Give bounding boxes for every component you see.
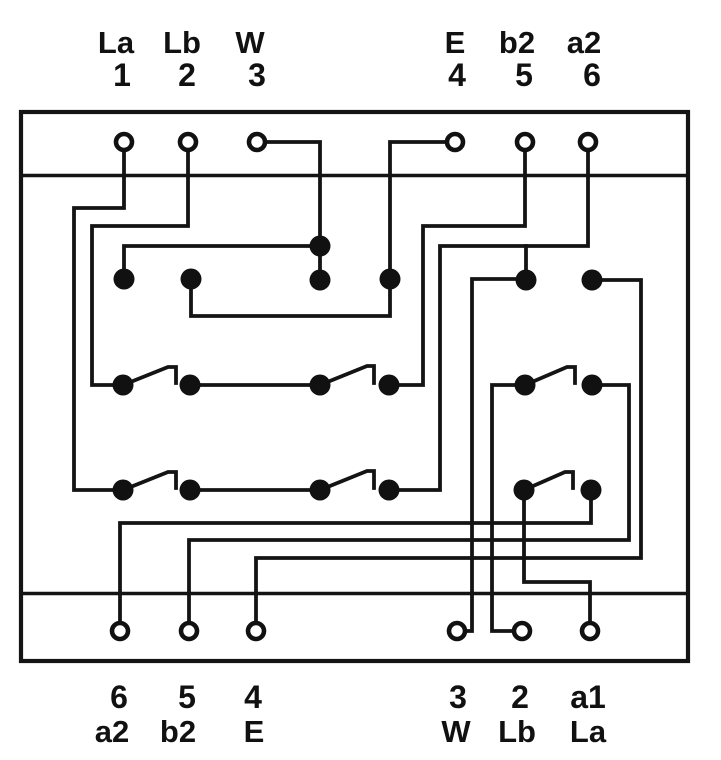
switch S2b contacts [310, 480, 331, 501]
wire switch row1 middle [190, 383, 320, 387]
connector housing outline [21, 112, 688, 661]
switch S1a arm [123, 367, 176, 385]
svg-text:W: W [441, 714, 471, 749]
wire switch row2 middle [190, 488, 320, 492]
wire E4: terminal 4 left, down through node, U-turn up to second node dot [191, 142, 447, 316]
switch S3 contacts [515, 375, 536, 396]
switch S2a arm [123, 472, 176, 490]
svg-text:b2: b2 [499, 25, 535, 60]
junction dot W line [310, 236, 331, 257]
svg-text:2: 2 [511, 679, 529, 715]
terminal 4 E (top) [447, 134, 463, 150]
switch S1b contacts [310, 375, 331, 396]
svg-text:5: 5 [515, 57, 533, 93]
svg-text:1: 1 [113, 57, 131, 93]
terminal 2 Lb (bottom) [514, 623, 530, 639]
terminal 6 a2 (top) [580, 134, 596, 150]
wire S3 left contact to bottom terminal 2Lb [492, 385, 525, 631]
svg-text:a2: a2 [95, 714, 129, 749]
top terminal strip line [21, 174, 688, 178]
svg-text:W: W [235, 25, 265, 60]
switch S2a contacts [113, 480, 134, 501]
wire W3: terminal 3 right, down to node row junctions [265, 142, 320, 280]
svg-text:b2: b2 [160, 714, 196, 749]
wire S3 right contact to bottom terminal 5b2 [189, 385, 629, 631]
switch S3 arm (upper right) [525, 367, 575, 385]
terminal 5 b2 (bottom) [181, 623, 197, 639]
wire S4 right contact to bottom terminal 6a2 [120, 490, 591, 631]
svg-text:3: 3 [248, 57, 266, 93]
contact node dot under 4 [380, 269, 401, 290]
svg-text:2: 2 [178, 57, 196, 93]
contact node dot under 1 [114, 269, 135, 290]
switch S4 arm (lower right) [524, 472, 573, 490]
wire a2-6: switch row2 right contact up to terminal 6 [389, 146, 588, 490]
switch S4 contacts [514, 480, 535, 501]
contact node dot under 2 [181, 269, 202, 290]
wire stub: a2 line down to node dot [524, 246, 528, 280]
switch S2b arm [320, 471, 374, 490]
terminal 3 W (bottom) [449, 623, 465, 639]
terminal 5 b2 (top) [517, 134, 533, 150]
wire La1: terminal 1 down, left, down to switch row2 left contact [74, 146, 124, 490]
wire node to bottom terminal 4E [256, 280, 641, 631]
svg-text:4: 4 [448, 57, 466, 93]
wire Lb2: terminal 2 down, left, down to switch row1 left contact [92, 146, 188, 385]
svg-text:a1: a1 [570, 679, 606, 715]
bottom terminal strip line [21, 592, 688, 596]
terminal a1 La (bottom) [582, 623, 598, 639]
switch S1a contacts [113, 375, 134, 396]
svg-text:6: 6 [583, 57, 601, 93]
wire W3 branch: junction left then down to node dot [124, 246, 320, 280]
terminal 3 W (top) [249, 134, 265, 150]
svg-text:Lb: Lb [163, 25, 201, 60]
svg-text:4: 4 [244, 679, 262, 715]
contact node dot under 6 [582, 270, 603, 291]
terminal 6 a2 (bottom) [112, 623, 128, 639]
wire S4 left contact to bottom terminal a1La [524, 490, 590, 631]
svg-text:La: La [570, 714, 607, 749]
terminal 4 E (bottom) [248, 623, 264, 639]
wire b2-5: switch row1 right contact up to terminal 5 [389, 146, 525, 385]
terminal 1 La (top) [116, 134, 132, 150]
switch S1b arm [320, 366, 374, 385]
svg-text:E: E [244, 714, 265, 749]
svg-text:6: 6 [110, 679, 128, 715]
svg-text:Lb: Lb [498, 714, 536, 749]
svg-text:3: 3 [449, 679, 467, 715]
svg-text:5: 5 [178, 679, 196, 715]
svg-text:a2: a2 [567, 25, 601, 60]
svg-text:E: E [445, 25, 466, 60]
contact node dot under 5 [516, 270, 537, 291]
terminal 2 Lb (top) [180, 134, 196, 150]
wire node to bottom terminal 3W [462, 279, 526, 631]
svg-text:La: La [98, 25, 135, 60]
contact node dot under 3 [310, 270, 331, 291]
